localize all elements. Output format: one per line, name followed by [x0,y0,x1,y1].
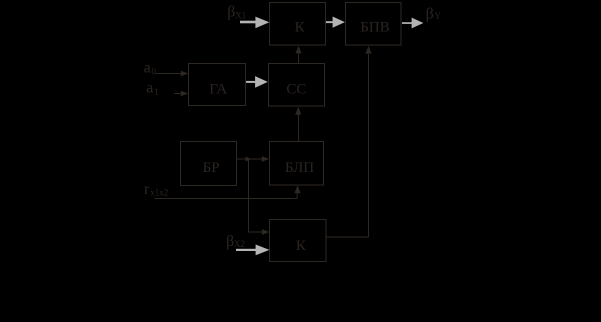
svg-text:Х2: Х2 [234,239,245,249]
svg-text:r: r [144,181,150,198]
svg-text:а: а [144,59,151,76]
svg-text:СС: СС [286,82,306,98]
svg-text:0: 0 [151,66,156,76]
svg-text:β: β [426,6,434,23]
svg-text:БЛП: БЛП [285,160,314,176]
svg-text:а: а [146,80,153,97]
svg-text:Y: Y [435,11,442,21]
svg-text:К: К [295,19,306,35]
svg-text:Х1: Х1 [235,10,246,20]
svg-text:БПВ: БПВ [360,19,389,35]
svg-text:К: К [296,238,307,254]
svg-text:ГА: ГА [209,82,227,98]
svg-text:1: 1 [154,87,159,97]
svg-text:БР: БР [203,160,220,176]
svg-text:х1х2: х1х2 [150,188,168,198]
